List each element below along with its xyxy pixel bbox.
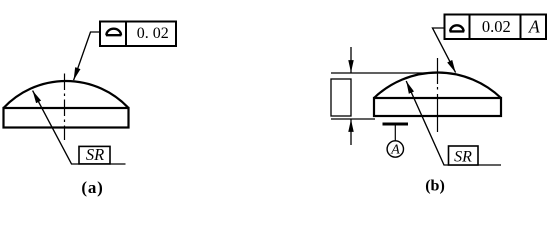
feature control frame (a): [100, 22, 176, 47]
centerline (a): [64, 74, 66, 141]
svg-text:(a): (a): [81, 178, 103, 197]
lens top arc (b): [374, 72, 501, 98]
datum leader line (b): [394, 126, 396, 142]
lens body (b): [374, 98, 501, 116]
datum target thick bar (b): [383, 123, 409, 126]
datum circle A (b): [387, 141, 403, 157]
leader from frame to arc (a): [74, 32, 100, 80]
svg-text:0.02: 0.02: [482, 17, 511, 36]
svg-text:0. 02: 0. 02: [137, 25, 169, 42]
SR leader (a): [33, 91, 126, 164]
svg-text:A: A: [528, 16, 540, 36]
profile-of-surface symbol (b): [450, 25, 465, 31]
svg-text:A: A: [390, 143, 400, 158]
SR leader (b): [406, 81, 501, 165]
bottom extension line (b): [331, 118, 375, 120]
leader from frame to arc (b): [433, 28, 456, 73]
svg-text:SR: SR: [86, 145, 104, 164]
top extension line (b): [331, 72, 438, 74]
centerline (b): [437, 58, 439, 132]
SR box (a): [79, 146, 110, 164]
dimension arrow top (b): [350, 47, 352, 73]
lens body (a): rectangle base: [4, 108, 129, 128]
feature control frame (b): [445, 15, 547, 40]
profile-of-surface symbol (a): [106, 29, 121, 36]
svg-text:SR: SR: [454, 149, 472, 166]
svg-text:(b): (b): [425, 178, 445, 195]
lens top arc (a): [4, 81, 129, 108]
empty dimension box (b): [331, 79, 351, 116]
SR box (b): [449, 146, 479, 165]
dimension arrow bottom (b): [350, 120, 352, 146]
